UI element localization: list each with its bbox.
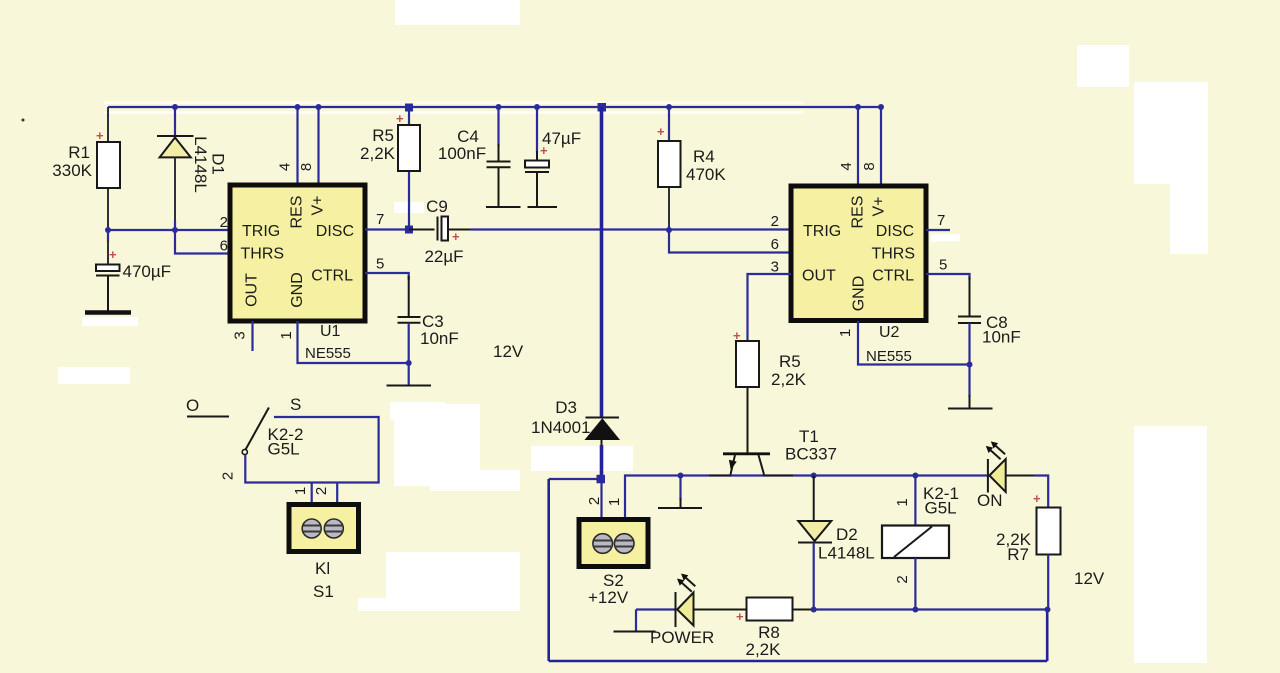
resistor R4 xyxy=(657,107,726,230)
svg-text:10nF: 10nF xyxy=(982,328,1021,347)
wire U1 pin5 CTRL to C3 xyxy=(365,273,409,280)
svg-text:BC337: BC337 xyxy=(785,445,837,464)
wire S1 pin2 lead xyxy=(336,483,338,506)
op-amp U2 NE555 timer xyxy=(791,186,926,321)
svg-text:D1: D1 xyxy=(209,153,228,175)
svg-text:6: 6 xyxy=(220,238,228,255)
svg-text:470µF: 470µF xyxy=(123,262,172,281)
svg-text:2,2K: 2,2K xyxy=(771,370,807,389)
diode D3 1N4001 xyxy=(531,398,619,480)
svg-text:+: + xyxy=(109,247,117,262)
ground under C3 xyxy=(387,363,432,386)
svg-text:RES: RES xyxy=(850,196,867,229)
svg-text:L4148L: L4148L xyxy=(818,544,875,563)
svg-text:1: 1 xyxy=(278,331,295,339)
LED POWER xyxy=(650,574,714,648)
svg-text:1: 1 xyxy=(894,498,911,506)
svg-text:1: 1 xyxy=(606,498,623,506)
junction relay pin1 top xyxy=(912,473,918,479)
relay coil K2-1 G5L xyxy=(882,476,959,610)
junction R4/TRIG node xyxy=(666,227,672,233)
svg-text:S1: S1 xyxy=(313,582,334,601)
wire S2 pin2 lead xyxy=(600,483,602,520)
diode D1 xyxy=(157,107,228,230)
svg-text:+: + xyxy=(396,111,404,126)
svg-text:1: 1 xyxy=(837,329,854,337)
LED ON xyxy=(977,441,1006,510)
svg-text:2: 2 xyxy=(220,472,237,480)
svg-text:1N4001: 1N4001 xyxy=(531,418,591,437)
wire U2 THRS link xyxy=(669,230,791,253)
wire U1 pin4 RES to bus xyxy=(296,107,298,186)
resistor R8 xyxy=(736,598,814,660)
wire bottom rail right xyxy=(814,608,1048,610)
svg-text:TRIG: TRIG xyxy=(803,223,841,240)
svg-text:THRS: THRS xyxy=(241,246,285,263)
junction D3/S2 node xyxy=(597,475,606,484)
svg-text:Kl: Kl xyxy=(315,559,330,578)
svg-text:12V: 12V xyxy=(1074,569,1105,588)
wire U1 pin8 V+ to bus xyxy=(317,107,319,186)
svg-text:CTRL: CTRL xyxy=(311,268,353,285)
svg-text:NE555: NE555 xyxy=(305,345,351,362)
wire node R1/D1 to U1 TRIG xyxy=(108,229,230,231)
wire U2 pin1 GND xyxy=(858,321,970,365)
ground under C4 xyxy=(486,206,521,208)
wire emitter rail black segments xyxy=(709,475,731,477)
svg-text:CTRL: CTRL xyxy=(872,268,914,285)
svg-text:6: 6 xyxy=(771,236,779,253)
wire open stub under POWER led xyxy=(614,610,656,632)
ground under T1 emitter xyxy=(658,476,702,509)
ground under C5 xyxy=(528,206,558,208)
wire U1 pin7 DISC xyxy=(365,228,413,230)
resistor R5 upper xyxy=(360,107,420,230)
svg-text:2,2K: 2,2K xyxy=(360,144,396,163)
svg-text:THRS: THRS xyxy=(871,246,915,263)
svg-text:2,2K: 2,2K xyxy=(746,640,782,659)
wire U2 TRIG xyxy=(669,228,791,230)
wire O terminal stub xyxy=(187,416,229,418)
junction bus/U1 pin8 xyxy=(316,104,322,110)
svg-text:OUT: OUT xyxy=(802,268,836,285)
wire U2 pin5 CTRL to C8 xyxy=(926,274,970,280)
junction bus/C4 xyxy=(496,104,502,110)
junction D2 bottom xyxy=(811,607,817,613)
junction emitter ground tap xyxy=(678,473,684,479)
svg-text:8: 8 xyxy=(298,163,315,171)
wire bottom rail xyxy=(636,608,676,610)
wire switch loop xyxy=(245,417,378,483)
junction C8/GND xyxy=(967,362,973,368)
svg-text:S: S xyxy=(290,395,301,414)
svg-text:330K: 330K xyxy=(52,161,92,180)
svg-text:3: 3 xyxy=(232,331,249,339)
svg-text:OUT: OUT xyxy=(244,273,261,307)
terminal block S2 xyxy=(579,520,648,567)
junction bus/U1 pin4 xyxy=(295,104,301,110)
svg-text:R5: R5 xyxy=(779,352,801,371)
wire U2 pin8 V+ to bus xyxy=(880,107,882,187)
svg-text:470K: 470K xyxy=(686,165,726,184)
svg-text:8: 8 xyxy=(861,162,878,170)
junction bus/R5 xyxy=(405,104,413,112)
capacitor C4 100nF xyxy=(438,107,511,206)
capacitor C5 47uF xyxy=(525,107,581,206)
svg-text:+: + xyxy=(452,229,460,244)
svg-text:R1: R1 xyxy=(68,143,90,162)
wire THRS link xyxy=(175,230,230,254)
svg-text:+: + xyxy=(733,328,741,343)
wire loop right side xyxy=(1046,610,1049,662)
svg-text:U1: U1 xyxy=(320,323,341,340)
wire U2 pin4 RES to bus xyxy=(857,107,859,187)
svg-text:47µF: 47µF xyxy=(542,129,581,148)
wire loop left link xyxy=(549,478,599,480)
wire S1 pin1 lead xyxy=(311,483,313,506)
svg-text:+12V: +12V xyxy=(588,588,629,607)
resistor R1 xyxy=(52,107,120,230)
junction D2 top xyxy=(811,473,817,479)
svg-text:G5L: G5L xyxy=(925,499,957,518)
diode D2 L4148L xyxy=(798,476,875,610)
wire 12V feed to D3 xyxy=(600,107,604,417)
wire U1 pin3 OUT stub xyxy=(251,321,253,351)
svg-text:2: 2 xyxy=(586,497,603,505)
junction C3/GND xyxy=(406,360,412,366)
svg-text:+: + xyxy=(657,124,665,139)
svg-text:T1: T1 xyxy=(799,427,819,446)
svg-text:+: + xyxy=(736,609,744,624)
svg-text:C9: C9 xyxy=(426,197,448,216)
wire U1 pin1 GND xyxy=(298,321,409,363)
svg-text:10nF: 10nF xyxy=(420,329,459,348)
junction relay pin2 bottom xyxy=(912,607,918,613)
wire loop left side xyxy=(547,479,550,661)
wire U2 pin7 DISC stub xyxy=(926,229,950,231)
svg-text:O: O xyxy=(186,396,199,415)
capacitor C9 22uF xyxy=(409,197,470,266)
junction bus/C5 xyxy=(534,104,540,110)
junction bus/D1 xyxy=(172,104,178,110)
wire U2 pin3 OUT xyxy=(748,274,792,341)
switch K2-2 arm xyxy=(242,408,269,455)
wire R5 to T1 base xyxy=(747,387,749,453)
wire S2 pin1 lead and emitter rail start xyxy=(625,476,988,521)
capacitor C1 470uF xyxy=(96,230,171,311)
svg-text:7: 7 xyxy=(376,211,384,228)
ground under C8 xyxy=(948,365,993,409)
svg-text:2: 2 xyxy=(220,214,228,231)
svg-text:2: 2 xyxy=(313,487,330,495)
svg-text:ON: ON xyxy=(977,491,1003,510)
svg-text:V+: V+ xyxy=(871,196,888,216)
wire loop bottom xyxy=(549,660,1047,663)
svg-text:POWER: POWER xyxy=(650,628,714,647)
junction bus/D3 feed xyxy=(598,103,607,112)
wire C9 to U2 node xyxy=(470,228,669,230)
svg-text:4: 4 xyxy=(838,162,855,170)
svg-text:TRIG: TRIG xyxy=(242,223,280,240)
svg-text:U2: U2 xyxy=(879,324,900,341)
svg-text:G5L: G5L xyxy=(268,440,300,459)
svg-text:GND: GND xyxy=(851,276,868,312)
wire 12V top bus xyxy=(108,106,881,108)
svg-text:12V: 12V xyxy=(493,342,524,361)
junction bus/U2 pin4 xyxy=(855,104,861,110)
svg-text:2: 2 xyxy=(771,213,779,230)
node artifact dot xyxy=(22,119,25,122)
junction R7 bottom corner xyxy=(1045,607,1051,613)
svg-text:4: 4 xyxy=(277,163,294,171)
svg-text:DISC: DISC xyxy=(316,223,354,240)
svg-text:R7: R7 xyxy=(1007,545,1029,564)
svg-text:100nF: 100nF xyxy=(438,144,486,163)
svg-text:D2: D2 xyxy=(836,525,858,544)
svg-text:NE555: NE555 xyxy=(866,348,912,365)
svg-text:R4: R4 xyxy=(693,147,715,166)
capacitor C3 xyxy=(398,276,459,363)
svg-text:RES: RES xyxy=(289,196,306,229)
junction bus/R4 xyxy=(666,104,672,110)
svg-text:L4148L: L4148L xyxy=(191,136,210,193)
resistor R5 lower xyxy=(733,328,807,389)
ground under C1 xyxy=(85,310,131,315)
junction bus/U2 pin8 corner xyxy=(878,104,884,110)
transistor T1 BC337 xyxy=(723,427,837,475)
terminal block S1 Kl xyxy=(289,505,359,552)
junction D1 node xyxy=(172,227,178,233)
junction R1 node xyxy=(105,227,111,233)
svg-text:2: 2 xyxy=(894,575,911,583)
svg-text:5: 5 xyxy=(939,257,947,274)
svg-text:1: 1 xyxy=(292,487,309,495)
wire LED ON to R7 xyxy=(1006,476,1048,509)
op-amp U1 NE555 timer xyxy=(230,185,365,321)
svg-text:7: 7 xyxy=(937,212,945,229)
svg-text:22µF: 22µF xyxy=(424,247,463,266)
svg-text:+: + xyxy=(96,128,104,143)
wire POWER led to R8 xyxy=(694,609,748,611)
svg-text:D3: D3 xyxy=(555,398,577,417)
svg-text:V+: V+ xyxy=(310,195,327,215)
svg-text:5: 5 xyxy=(376,256,384,273)
junction R5/pin7 xyxy=(405,226,413,234)
capacitor C8 xyxy=(958,277,1021,365)
svg-text:DISC: DISC xyxy=(876,223,914,240)
resistor R7 xyxy=(996,491,1060,610)
svg-text:+: + xyxy=(1033,491,1041,506)
svg-text:R5: R5 xyxy=(372,126,394,145)
svg-text:GND: GND xyxy=(289,272,306,308)
